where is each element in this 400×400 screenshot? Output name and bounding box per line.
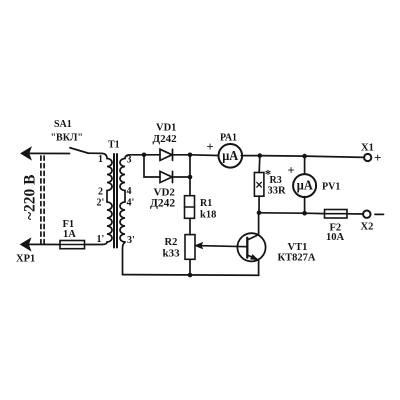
svg-text:X2: X2	[361, 222, 374, 233]
svg-text:k18: k18	[200, 210, 216, 221]
svg-text:μА: μА	[297, 179, 314, 194]
svg-text:3: 3	[127, 155, 132, 166]
wire secondary bottom lead down	[123, 242, 126, 275]
svg-text:+: +	[288, 164, 295, 178]
plug XP1 top pin arrow	[21, 147, 31, 159]
node secondary top junction	[142, 153, 147, 158]
transformer T1 primary winding section 2'-1'	[107, 202, 112, 242]
svg-text:VD1: VD1	[156, 122, 176, 133]
svg-text:4': 4'	[127, 198, 135, 209]
svg-text:1А: 1А	[63, 229, 76, 240]
svg-text:Т1: Т1	[108, 140, 120, 151]
wire node down to VD2 branch	[144, 155, 160, 177]
svg-text:Д242: Д242	[153, 133, 178, 145]
node PV1 bottom junction	[302, 211, 307, 216]
wire PA1 to R3 junction	[241, 155, 259, 157]
svg-text:R1: R1	[200, 198, 212, 209]
wire node to VD1 anode	[144, 154, 160, 156]
svg-text:2: 2	[98, 187, 103, 198]
wire cathode junction down to R1	[189, 155, 191, 196]
svg-text:R3: R3	[270, 175, 282, 186]
wire R3 top lead	[258, 156, 261, 173]
wire bottom rail	[123, 274, 259, 277]
transformer T1 primary winding section 1-2	[107, 159, 112, 191]
svg-text:~220 В: ~220 В	[22, 174, 39, 220]
diode VD2	[160, 171, 190, 182]
transistor VT1 collector lead	[247, 213, 258, 240]
node bottom rail junction at R2	[188, 273, 193, 278]
svg-text:X1: X1	[361, 143, 374, 154]
terminal X1	[364, 154, 371, 161]
wire F2 to X2	[347, 213, 363, 215]
plug XP1 dashed boundary line right	[43, 156, 45, 244]
svg-text:33R: 33R	[268, 186, 287, 197]
transformer T1 primary tap wire 2 to 2'	[106, 191, 108, 203]
wire R3 bottom to collector junction	[258, 196, 260, 213]
node R3 top junction	[258, 153, 263, 158]
svg-text:РА1: РА1	[220, 133, 237, 144]
svg-text:+: +	[207, 140, 214, 154]
svg-text:1': 1'	[97, 234, 105, 245]
transformer T1 secondary winding section 3-4	[120, 159, 125, 191]
meter PA1	[219, 144, 243, 168]
svg-text:1: 1	[98, 154, 103, 165]
svg-text:PV1: PV1	[322, 182, 340, 193]
svg-text:k33: k33	[163, 248, 181, 260]
wire primary bottom to fuse F1	[85, 242, 108, 245]
wire PV1 bottom lead	[304, 197, 306, 214]
node PV1 top junction	[302, 154, 307, 159]
wire PV1 junction to fuse F2	[305, 212, 325, 214]
svg-text:+: +	[374, 150, 381, 165]
svg-text:10А: 10А	[326, 232, 345, 243]
switch SA1 blade	[70, 148, 89, 153]
wire top rail to X1	[305, 156, 365, 157]
wire switch to transformer	[89, 153, 108, 158]
node VD2 cathode junction	[188, 175, 193, 180]
transistor VT1 emitter lead with arrow	[247, 255, 258, 275]
svg-text:R2: R2	[165, 237, 178, 248]
resistor R3	[254, 173, 264, 197]
resistor R2 potentiometer	[185, 235, 195, 260]
svg-text:SA1: SA1	[54, 119, 72, 130]
label minus X2	[375, 213, 384, 215]
transistor VT1 circle	[237, 233, 265, 261]
transformer T1 secondary winding section 4'-3'	[120, 202, 125, 242]
wire R2 to bottom rail	[189, 259, 191, 275]
transformer T1 core line right	[116, 154, 118, 248]
wire VD junction to PA1	[190, 154, 218, 157]
wire top AC from arrow to switch	[24, 152, 70, 154]
wire PV1 top lead	[304, 156, 306, 174]
terminal X2	[363, 211, 370, 218]
resistor R1	[185, 196, 195, 219]
wire R1 to R2	[189, 218, 191, 234]
transformer T1 core line left	[113, 154, 115, 248]
transformer T1 secondary tap wire 4 to 4'	[124, 191, 126, 203]
wire secondary top lead to node	[125, 155, 144, 159]
meter PV1	[293, 174, 316, 197]
svg-text:2': 2'	[97, 198, 105, 209]
svg-text:КТ827А: КТ827А	[278, 253, 316, 264]
svg-text:ХР1: ХР1	[16, 254, 35, 265]
wire top rail to PV1 junction	[260, 155, 305, 158]
svg-text:VT1: VT1	[288, 242, 308, 253]
node VD1 cathode junction	[188, 153, 193, 158]
svg-text:"ВКЛ": "ВКЛ"	[51, 133, 83, 144]
svg-text:Д242: Д242	[150, 197, 175, 209]
plug XP1 dashed boundary line left	[40, 156, 42, 244]
wire middle rail R3 junction to PV1 bottom	[259, 212, 305, 214]
fuse F1	[60, 241, 85, 249]
svg-text:4: 4	[127, 186, 132, 197]
transistor VT1 base bar	[246, 238, 248, 258]
svg-text:μА: μА	[222, 149, 239, 164]
diode VD1	[160, 149, 190, 160]
plug XP1 bottom pin arrow	[21, 238, 31, 250]
wire bottom AC from arrow to fuse F1	[24, 243, 60, 245]
fuse F2	[325, 210, 348, 219]
R3 selection mark x	[257, 182, 262, 187]
svg-text:3': 3'	[127, 235, 135, 246]
R2 wiper arrow to base wire	[195, 243, 247, 249]
node R3 bottom junction	[257, 211, 262, 216]
